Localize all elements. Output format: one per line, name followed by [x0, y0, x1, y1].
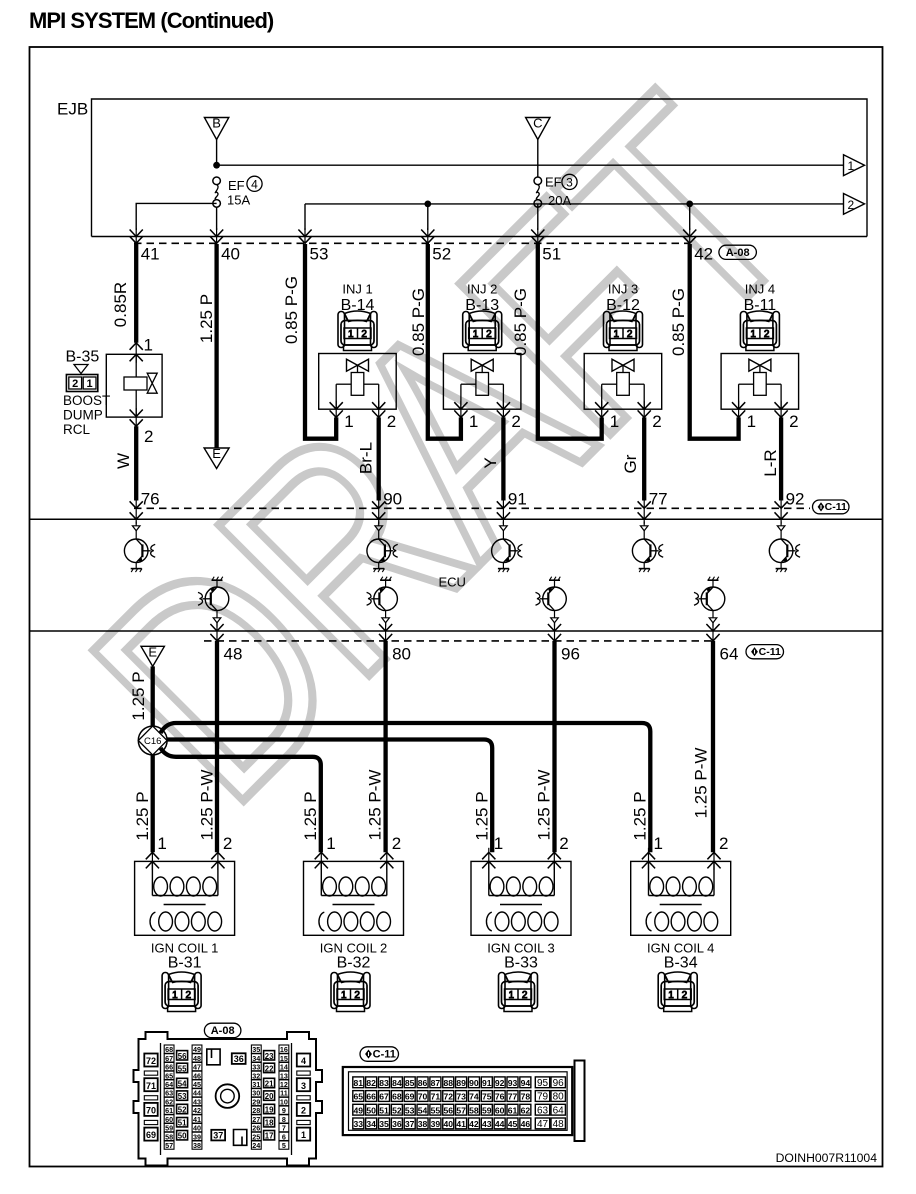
svg-text:20: 20	[265, 1092, 274, 1101]
svg-text:18: 18	[265, 1119, 274, 1128]
svg-text:57: 57	[456, 1105, 466, 1115]
connector pin 52	[421, 228, 451, 264]
svg-text:2: 2	[682, 990, 688, 1001]
svg-text:1: 1	[87, 378, 93, 390]
ECU connector C-11 dashed line upper	[134, 507, 810, 509]
svg-text:34: 34	[252, 1054, 260, 1063]
svg-text:1: 1	[747, 412, 756, 431]
B-35 connector icon 2|1	[66, 375, 97, 392]
svg-text:1.25 P-W: 1.25 P-W	[535, 770, 554, 841]
IGN COIL 4 pin 1	[642, 834, 663, 870]
svg-text:64: 64	[720, 645, 739, 664]
svg-text:38: 38	[418, 1119, 428, 1129]
svg-text:1.25 P: 1.25 P	[301, 791, 320, 840]
svg-text:2: 2	[511, 412, 520, 431]
svg-text:51: 51	[178, 1119, 187, 1128]
ECU pin 64	[706, 623, 738, 664]
INJ 1 pin 1	[330, 401, 354, 431]
INJ 4 pin 2	[775, 401, 799, 431]
svg-text:37: 37	[213, 1130, 223, 1140]
svg-text:19: 19	[265, 1106, 274, 1115]
svg-text:82: 82	[366, 1078, 376, 1088]
svg-text:13: 13	[280, 1071, 288, 1080]
A-08 left rail	[160, 1043, 162, 1155]
injector INJ 4 B-11	[721, 282, 799, 410]
svg-text:DUMP: DUMP	[63, 408, 103, 423]
IGN COIL 3 pin 1	[482, 834, 503, 870]
svg-text:70: 70	[418, 1092, 428, 1102]
svg-text:22: 22	[265, 1064, 274, 1073]
svg-text:2: 2	[354, 990, 360, 1001]
svg-text:0.85 P-G: 0.85 P-G	[669, 288, 688, 356]
wire ECU96 to coil3 pin2	[552, 641, 556, 852]
ECU ignition driver transistor (80)	[367, 577, 398, 627]
wire C16 to coil 1 pin 1	[151, 755, 155, 852]
svg-text:4: 4	[251, 177, 258, 191]
junction node on line 1	[213, 162, 220, 169]
svg-text:33: 33	[252, 1063, 260, 1072]
svg-text:91: 91	[508, 490, 527, 509]
ECU injector driver transistor (76)	[124, 522, 155, 573]
svg-text:1: 1	[473, 329, 479, 340]
svg-text:42: 42	[193, 1106, 201, 1115]
svg-text:1: 1	[848, 159, 855, 173]
svg-text:1: 1	[614, 329, 620, 340]
A-08 cells 68-57	[164, 1045, 174, 1150]
svg-text:3: 3	[566, 175, 573, 189]
svg-text:27: 27	[252, 1115, 260, 1124]
svg-text:53: 53	[405, 1105, 415, 1115]
svg-text:INJ 1: INJ 1	[342, 282, 372, 297]
A-08 cells 56-50	[177, 1051, 188, 1141]
svg-text:86: 86	[418, 1078, 428, 1088]
boost dump RCL B-35 pin 1	[130, 336, 153, 363]
svg-text:63: 63	[165, 1089, 173, 1098]
svg-text:2: 2	[223, 834, 232, 853]
svg-text:76: 76	[141, 490, 160, 509]
wire C to fuse EF3	[537, 140, 539, 178]
INJ 3 pin 1	[595, 401, 619, 431]
connector C-11 housing	[343, 1067, 572, 1135]
svg-text:15: 15	[280, 1054, 288, 1063]
svg-text:1.25 P: 1.25 P	[197, 294, 216, 343]
svg-text:74: 74	[469, 1092, 479, 1102]
svg-text:62: 62	[521, 1105, 531, 1115]
wire ECU64 to coil4 pin2	[711, 641, 715, 852]
INJ 2 pin 2	[497, 401, 521, 431]
off-page arrow 2	[844, 194, 865, 215]
svg-text:E: E	[148, 644, 157, 659]
EJB junction block box	[92, 99, 868, 237]
svg-text:10: 10	[280, 1097, 288, 1106]
svg-text:41: 41	[193, 1115, 201, 1124]
svg-text:40: 40	[221, 245, 240, 264]
wire line 1 to off-page arrow 1	[217, 164, 844, 166]
svg-text:52: 52	[392, 1105, 402, 1115]
svg-text:93: 93	[508, 1078, 518, 1088]
EJB boundary solid line	[92, 236, 868, 238]
svg-text:8: 8	[282, 1115, 286, 1124]
svg-text:1: 1	[610, 412, 619, 431]
svg-text:61: 61	[165, 1106, 173, 1115]
svg-text:60: 60	[165, 1115, 173, 1124]
svg-text:C: C	[533, 116, 542, 131]
svg-text:52: 52	[432, 245, 451, 264]
svg-text:2: 2	[392, 834, 401, 853]
svg-text:52: 52	[178, 1106, 187, 1115]
svg-text:75: 75	[482, 1092, 492, 1102]
svg-text:61: 61	[508, 1105, 518, 1115]
svg-text:17: 17	[265, 1132, 274, 1141]
ECU injector driver transistor (90)	[367, 522, 398, 573]
C-11 wide pin cells	[535, 1077, 565, 1130]
wire feed from pin INJ 3	[538, 244, 602, 439]
svg-text:INJ 2: INJ 2	[467, 282, 497, 297]
joint connector C16	[138, 726, 167, 755]
ECU injector driver transistor (77)	[632, 522, 663, 573]
svg-text:2: 2	[789, 412, 798, 431]
svg-text:90: 90	[383, 490, 402, 509]
svg-text:39: 39	[193, 1132, 201, 1141]
INJ 3 pin 2	[638, 401, 662, 431]
A-08 cell 36	[232, 1053, 246, 1064]
ECU pin 80	[379, 623, 411, 664]
svg-text:56: 56	[443, 1105, 453, 1115]
A-08 relay slot lower	[234, 1130, 247, 1146]
svg-text:65: 65	[165, 1071, 173, 1080]
fusible link C triangle	[526, 118, 550, 140]
ECU case line lower	[30, 630, 883, 632]
injector INJ 2 B-13	[443, 282, 521, 410]
svg-text:76: 76	[495, 1092, 505, 1102]
wire fuse EF4 to pin 41	[136, 203, 216, 230]
svg-text:EF: EF	[545, 174, 562, 189]
A-08 fuse cells 72-69	[144, 1054, 157, 1141]
svg-text:44: 44	[495, 1119, 505, 1129]
svg-text:84: 84	[392, 1078, 402, 1088]
svg-text:1.25 P: 1.25 P	[473, 791, 492, 840]
ECU pin 76	[130, 490, 160, 524]
svg-text:73: 73	[456, 1092, 466, 1102]
C-11 pin cells	[353, 1077, 531, 1129]
svg-text:96: 96	[553, 1078, 565, 1089]
svg-text:70: 70	[146, 1106, 156, 1116]
svg-text:36: 36	[392, 1119, 402, 1129]
svg-text:35: 35	[379, 1119, 389, 1129]
svg-text:1: 1	[654, 834, 663, 853]
ground E triangle	[204, 448, 229, 469]
svg-text:1: 1	[348, 329, 354, 340]
svg-text:63: 63	[537, 1105, 549, 1116]
svg-text:69: 69	[405, 1092, 415, 1102]
svg-text:64: 64	[553, 1105, 565, 1116]
svg-text:5: 5	[282, 1141, 286, 1150]
INJ 4 pin 1	[732, 401, 756, 431]
A-08 cells 23-17	[264, 1051, 275, 1141]
svg-text:L-R: L-R	[761, 449, 780, 476]
svg-text:46: 46	[193, 1071, 201, 1080]
svg-text:53: 53	[310, 245, 329, 264]
junction node pin 52	[424, 201, 431, 208]
svg-text:EJB: EJB	[57, 100, 88, 119]
svg-text:1: 1	[344, 412, 353, 431]
svg-text:C-11: C-11	[373, 1049, 396, 1061]
svg-text:34: 34	[366, 1119, 376, 1129]
svg-text:67: 67	[165, 1054, 173, 1063]
svg-text:89: 89	[456, 1078, 466, 1088]
svg-text:B-32: B-32	[337, 955, 371, 972]
svg-text:2: 2	[144, 427, 153, 446]
svg-text:32: 32	[252, 1071, 260, 1080]
svg-text:E: E	[212, 446, 221, 461]
watermark DRAFT	[31, 40, 853, 862]
svg-text:50: 50	[178, 1132, 187, 1141]
wire C16 to coil 3 pin 1	[167, 740, 493, 853]
wire C16 to coil 2 pin 1	[161, 748, 321, 852]
connector C-11 right tab	[575, 1061, 585, 1142]
IGN COIL 1 pin 2	[211, 834, 232, 870]
svg-text:1: 1	[301, 1130, 306, 1140]
ignition coil IGN COIL 2 B-32	[304, 861, 404, 1011]
svg-text:B-34: B-34	[664, 955, 698, 972]
A-08 right rail	[291, 1043, 293, 1155]
wire feed from pin INJ 2	[428, 244, 461, 439]
svg-text:42: 42	[694, 245, 713, 264]
IGN COIL 1 pin 1	[146, 834, 167, 870]
svg-text:B-35: B-35	[66, 349, 100, 366]
svg-text:26: 26	[252, 1124, 260, 1133]
svg-text:RCL: RCL	[63, 422, 90, 437]
svg-text:1: 1	[157, 834, 166, 853]
svg-text:55: 55	[178, 1064, 187, 1073]
fuse EF4 15A	[213, 177, 221, 185]
A-08 fuse cells 4-1	[297, 1054, 310, 1141]
svg-text:45: 45	[508, 1119, 518, 1129]
svg-text:0.85 P-G: 0.85 P-G	[511, 288, 530, 356]
svg-text:INJ 3: INJ 3	[608, 282, 638, 297]
connector A-08 housing outline	[134, 1032, 323, 1166]
svg-text:66: 66	[165, 1063, 173, 1072]
svg-text:INJ 4: INJ 4	[745, 282, 775, 297]
svg-text:95: 95	[537, 1078, 549, 1089]
svg-text:25: 25	[252, 1132, 260, 1141]
injector INJ 3 B-12	[584, 282, 662, 410]
svg-text:A-08: A-08	[211, 1025, 235, 1037]
wire 41 0.85R	[134, 244, 138, 343]
svg-text:41: 41	[141, 245, 160, 264]
wire Br-L INJ1 to ECU 90	[377, 417, 381, 500]
svg-text:43: 43	[193, 1097, 201, 1106]
svg-text:9: 9	[282, 1106, 286, 1115]
wire line 2 distribution	[305, 203, 844, 205]
svg-text:2: 2	[559, 834, 568, 853]
wire C16 to coil 4 pin 1	[161, 723, 651, 852]
svg-text:2: 2	[652, 412, 661, 431]
svg-text:30: 30	[252, 1089, 260, 1098]
svg-text:69: 69	[146, 1130, 156, 1140]
INJ 2 pin 1	[454, 401, 478, 431]
svg-text:87: 87	[431, 1078, 441, 1088]
svg-text:36: 36	[234, 1054, 244, 1064]
connector pin 42	[683, 228, 713, 264]
ECU pin 90	[372, 490, 402, 524]
svg-text:14: 14	[280, 1063, 288, 1072]
ECU injector driver transistor (92)	[769, 522, 800, 573]
ECU ignition driver transistor (96)	[536, 577, 567, 627]
IGN COIL 2 pin 2	[380, 834, 401, 870]
svg-text:92: 92	[786, 490, 805, 509]
svg-text:80: 80	[392, 645, 411, 664]
svg-text:4: 4	[301, 1056, 306, 1066]
wire B to junction	[216, 140, 218, 166]
svg-text:1.25 P: 1.25 P	[133, 791, 152, 840]
svg-text:44: 44	[193, 1089, 201, 1098]
svg-text:58: 58	[165, 1132, 173, 1141]
wire 40 1.25P to ground	[214, 244, 218, 448]
connector pin 40	[210, 228, 240, 264]
ECU pin 92	[775, 490, 805, 524]
svg-text:49: 49	[354, 1105, 364, 1115]
svg-text:3: 3	[301, 1081, 306, 1091]
svg-text:29: 29	[252, 1097, 260, 1106]
svg-text:47: 47	[193, 1063, 201, 1072]
svg-text:77: 77	[649, 490, 668, 509]
ECU injector driver transistor (91)	[492, 522, 523, 573]
svg-text:71: 71	[146, 1081, 156, 1091]
svg-text:MPI SYSTEM (Continued): MPI SYSTEM (Continued)	[29, 8, 274, 33]
svg-text:IGN COIL 2: IGN COIL 2	[320, 941, 387, 956]
svg-text:31: 31	[252, 1080, 260, 1089]
svg-text:58: 58	[469, 1105, 479, 1115]
wire ECU48 to coil1 pin2	[215, 641, 219, 852]
svg-text:68: 68	[392, 1092, 402, 1102]
svg-text:16: 16	[280, 1045, 288, 1054]
svg-text:2: 2	[522, 990, 528, 1001]
B-35 connector triangle	[74, 365, 88, 374]
svg-text:55: 55	[431, 1105, 441, 1115]
connector pin 53	[298, 228, 328, 264]
svg-text:90: 90	[469, 1078, 479, 1088]
svg-text:2: 2	[719, 834, 728, 853]
svg-text:72: 72	[443, 1092, 453, 1102]
svg-text:40: 40	[443, 1119, 453, 1129]
ECU case line upper	[30, 518, 883, 520]
svg-text:1.25 P: 1.25 P	[631, 791, 650, 840]
svg-text:37: 37	[405, 1119, 415, 1129]
svg-text:51: 51	[542, 245, 561, 264]
svg-text:11: 11	[280, 1089, 288, 1098]
wire ECU80 to coil2 pin2	[383, 641, 387, 852]
A-08 relay slot upper	[207, 1049, 220, 1065]
svg-text:B: B	[212, 116, 221, 131]
junction node pin 42	[686, 201, 693, 208]
wire E to joint C16 1.25P	[151, 666, 155, 727]
svg-text:IGN COIL 4: IGN COIL 4	[647, 941, 714, 956]
wire line2 to pin 53	[304, 204, 306, 230]
svg-text:54: 54	[178, 1080, 187, 1089]
injector INJ 1 B-14	[319, 282, 397, 410]
ECU connector C-11 dashed line lower	[204, 640, 713, 642]
svg-text:42: 42	[469, 1119, 479, 1129]
IGN COIL 4 pin 2	[707, 834, 728, 870]
svg-text:0.85R: 0.85R	[111, 282, 130, 327]
svg-text:2: 2	[361, 329, 367, 340]
ignition coil IGN COIL 4 B-34	[631, 861, 731, 1011]
svg-text:2: 2	[764, 329, 770, 340]
svg-text:68: 68	[165, 1045, 173, 1054]
svg-text:1: 1	[172, 990, 178, 1001]
ECU pin 91	[497, 490, 527, 524]
fuse EF3 20A	[534, 177, 542, 185]
svg-text:64: 64	[165, 1080, 173, 1089]
connector pin 41	[130, 228, 160, 264]
wire to pin 42	[689, 204, 691, 230]
IGN COIL 2 pin 1	[315, 834, 336, 870]
svg-text:33: 33	[354, 1119, 364, 1129]
fusible link B triangle	[204, 118, 228, 140]
svg-text:65: 65	[354, 1092, 364, 1102]
svg-text:48: 48	[224, 645, 243, 664]
svg-text:0.85 P-G: 0.85 P-G	[282, 276, 301, 344]
svg-text:7: 7	[282, 1124, 286, 1133]
svg-text:77: 77	[508, 1092, 518, 1102]
svg-text:1: 1	[144, 336, 153, 355]
svg-text:48: 48	[553, 1119, 565, 1130]
svg-text:B-33: B-33	[504, 955, 538, 972]
svg-text:2: 2	[848, 198, 855, 212]
svg-text:59: 59	[165, 1124, 173, 1133]
svg-text:50: 50	[366, 1105, 376, 1115]
svg-text:C-11: C-11	[825, 501, 847, 513]
svg-text:67: 67	[379, 1092, 389, 1102]
svg-text:2: 2	[72, 378, 78, 390]
ECU pin 48	[210, 623, 242, 664]
svg-text:1: 1	[494, 834, 503, 853]
wire fuse EF4 to pin 40	[216, 207, 218, 230]
svg-text:2: 2	[387, 412, 396, 431]
svg-text:DOINH007R11004: DOINH007R11004	[776, 1151, 878, 1165]
connector badge C-11 upper	[813, 500, 850, 514]
svg-text:0.85 P-G: 0.85 P-G	[409, 288, 428, 356]
svg-text:2: 2	[627, 329, 633, 340]
svg-text:48: 48	[193, 1054, 201, 1063]
svg-text:21: 21	[265, 1080, 274, 1089]
boost dump RCL component box	[106, 354, 162, 417]
svg-text:83: 83	[379, 1078, 389, 1088]
svg-text:57: 57	[165, 1141, 173, 1150]
connector pin 51	[531, 228, 561, 264]
connector badge A-08	[719, 245, 757, 259]
A-08 cell 37	[211, 1130, 225, 1141]
svg-text:45: 45	[193, 1080, 201, 1089]
ignition coil IGN COIL 1 B-31	[135, 861, 235, 1011]
svg-text:Gr: Gr	[621, 454, 640, 473]
svg-text:C-11: C-11	[759, 646, 781, 658]
svg-text:41: 41	[456, 1119, 466, 1129]
wire Gr INJ3 to ECU 77	[642, 417, 646, 500]
svg-text:35: 35	[252, 1045, 260, 1054]
svg-text:B-31: B-31	[168, 955, 202, 972]
svg-text:43: 43	[482, 1119, 492, 1129]
svg-text:2: 2	[486, 329, 492, 340]
svg-text:Br-L: Br-L	[357, 442, 376, 474]
A-08 cells 49-38	[192, 1045, 202, 1150]
wire W to ECU 76	[134, 426, 138, 500]
power node E triangle	[141, 646, 164, 666]
svg-text:EF: EF	[228, 178, 245, 193]
wire to pin 52	[427, 204, 429, 230]
wire to pin 51	[537, 204, 539, 230]
